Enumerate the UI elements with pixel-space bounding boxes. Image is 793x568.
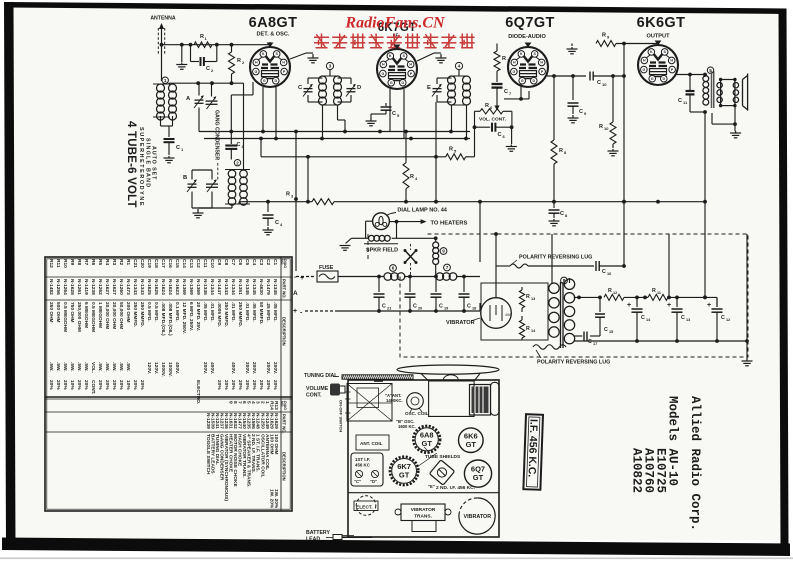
svg-text:N-1343: N-1343: [139, 279, 145, 295]
elect capacitor: [356, 496, 376, 516]
svg-text:6Q7GT: 6Q7GT: [505, 15, 555, 31]
wire 6K6 plate: [676, 70, 681, 72]
svg-text:N-1369: N-1369: [195, 279, 201, 295]
svg-text:N-1479: N-1479: [265, 279, 271, 295]
gang condenser section 2: [206, 180, 218, 192]
trimmer E: [432, 85, 442, 97]
svg-text:ANTENNA: ANTENNA: [150, 16, 176, 22]
ground right of 6K7: [417, 53, 434, 61]
capacitor C21: [378, 277, 380, 293]
svg-text:R: R: [602, 33, 606, 39]
svg-text:ON-OFF SWITCH: ON-OFF SWITCH: [339, 400, 344, 432]
IF transformer 1 (node 3): [326, 62, 333, 69]
svg-text:R4: R4: [104, 259, 110, 265]
svg-text:POLARITY REVERSING LUG: POLARITY REVERSING LUG: [519, 255, 592, 261]
ground under vol cont: [511, 127, 513, 144]
svg-text:500 OHM: 500 OHM: [55, 302, 61, 323]
svg-text:"D": "D": [370, 479, 377, 484]
svg-text:10: 10: [602, 82, 607, 87]
ground under C9: [568, 115, 579, 123]
svg-text:C2: C2: [265, 259, 271, 265]
svg-text:SINGLE BAND: SINGLE BAND: [145, 138, 151, 188]
resistor R8: [553, 76, 555, 140]
wire vertical IF1 bottom: [322, 105, 324, 139]
wire vertical IF2 bottom: [451, 105, 453, 132]
svg-text:H: H: [255, 61, 258, 65]
svg-text:.05 MFD.: .05 MFD.: [202, 302, 208, 322]
svg-text:20%: 20%: [139, 380, 145, 390]
svg-text:R7: R7: [83, 259, 89, 265]
wire 6Q7 bottom pin drops: [520, 84, 522, 99]
capacitor C8: [553, 202, 555, 208]
resistor R9: [596, 41, 616, 47]
svg-text:0.1 MFD.: 0.1 MFD.: [174, 302, 180, 322]
svg-text:200V.: 200V.: [202, 362, 208, 374]
svg-text:7: 7: [446, 265, 449, 270]
svg-text:.01 MFD.: .01 MFD.: [209, 302, 215, 322]
wire antenna row: [160, 43, 164, 47]
svg-text:120V.: 120V.: [153, 362, 159, 374]
svg-text:.5W.: .5W.: [104, 362, 110, 372]
svg-text:400V.: 400V.: [209, 362, 215, 374]
border frame right: [779, 9, 789, 546]
capacitor C17 series: [599, 324, 601, 336]
svg-text:20%: 20%: [48, 380, 54, 390]
tube 6Q7GT chassis: [464, 460, 491, 487]
svg-text:DET. & OSC.: DET. & OSC.: [257, 32, 290, 38]
vibrator unit box: [481, 283, 548, 340]
antenna coil (node 1): [162, 77, 168, 83]
svg-text:N-1351: N-1351: [237, 279, 243, 295]
svg-text:H: H: [540, 61, 543, 65]
svg-text:C13: C13: [188, 259, 194, 268]
svg-text:R: R: [286, 192, 290, 198]
svg-text:C15: C15: [174, 259, 180, 268]
svg-text:1ST I.F.: 1ST I.F.: [355, 457, 370, 462]
svg-text:20%: 20%: [230, 380, 236, 390]
resistor R13: [521, 287, 523, 290]
svg-text:200V.: 200V.: [251, 362, 257, 374]
oscillator coil (node 2): [234, 160, 240, 166]
wire vertical 6A8 pins: [262, 87, 264, 132]
wire secondary to ground: [734, 106, 736, 131]
IF transformer 2 (node 4): [455, 62, 462, 69]
svg-text:TO HEATERS: TO HEATERS: [431, 220, 468, 226]
svg-text:GT: GT: [421, 439, 432, 448]
ground right power: [742, 358, 753, 366]
svg-text:0.5 MFD.: 0.5 MFD.: [146, 302, 152, 322]
svg-text:250 MMFD.: 250 MMFD.: [132, 302, 138, 327]
svg-text:R: R: [599, 124, 603, 130]
svg-text:20%: 20%: [244, 380, 250, 390]
svg-text:G: G: [381, 72, 384, 76]
svg-text:C: C: [602, 269, 606, 275]
svg-text:120V.: 120V.: [146, 362, 152, 374]
trimmer D: [346, 85, 356, 97]
parts list table: [45, 257, 292, 511]
svg-text:N-1343: N-1343: [132, 279, 138, 295]
svg-text:1000V.: 1000V.: [167, 362, 173, 377]
svg-text:20%: 20%: [83, 380, 89, 390]
svg-text:R9: R9: [69, 259, 75, 265]
svg-text:1: 1: [164, 78, 167, 83]
svg-text:750 OHM: 750 OHM: [69, 302, 75, 323]
capacitor C4: [267, 202, 269, 212]
wire vertical x480: [479, 202, 481, 262]
svg-text:H: H: [643, 59, 646, 63]
svg-text:FUSE: FUSE: [319, 265, 334, 271]
svg-text:VIBRATOR: VIBRATOR: [463, 514, 491, 520]
svg-text:R: R: [652, 288, 656, 294]
choke 6: [390, 265, 397, 272]
svg-text:6 MEGOHM: 6 MEGOHM: [83, 302, 89, 328]
choke 7: [444, 264, 451, 271]
svg-text:1400KC.: 1400KC.: [386, 398, 403, 403]
svg-text:+: +: [707, 302, 711, 309]
lamp loop to field coil: [366, 220, 373, 222]
svg-text:I.F. 456 K.C.: I.F. 456 K.C.: [526, 419, 540, 478]
svg-text:DIODE-AUDIO: DIODE-AUDIO: [508, 34, 546, 40]
svg-text:N-1447: N-1447: [216, 279, 222, 295]
svg-text:C1: C1: [272, 259, 278, 265]
svg-text:DESCRIPTION: DESCRIPTION: [282, 317, 287, 346]
wire x545 6Q7 down: [544, 44, 546, 60]
svg-text:C19: C19: [146, 259, 152, 268]
transformer connections: [548, 289, 554, 291]
svg-text:1600 KC.: 1600 KC.: [398, 424, 416, 429]
ground under C1: [164, 156, 175, 163]
riser C16 connect: [622, 264, 626, 268]
svg-text:N-1624: N-1624: [167, 279, 173, 295]
svg-text:18: 18: [472, 307, 476, 311]
svg-text:N-1624: N-1624: [160, 279, 166, 295]
svg-text:N-4630: N-4630: [258, 279, 264, 295]
wire transformer secondary taps: [569, 278, 571, 283]
ground right of 6A8: [290, 53, 306, 59]
svg-text:456 KC: 456 KC: [355, 463, 371, 468]
svg-text:C9: C9: [216, 259, 222, 265]
svg-text:E: E: [427, 85, 431, 91]
svg-text:.5W.: .5W.: [55, 362, 61, 372]
border frame left: [4, 2, 16, 549]
wire to 6A8 grid cap: [266, 44, 270, 46]
svg-text:N-1625: N-1625: [146, 279, 152, 295]
svg-text:200 OHM: 200 OHM: [125, 302, 131, 323]
svg-text:C: C: [498, 132, 502, 138]
svg-text:20%: 20%: [216, 380, 222, 390]
svg-text:200V.: 200V.: [265, 362, 271, 374]
resistor R5: [446, 154, 466, 160]
svg-text:1W. 20%: 1W. 20%: [268, 489, 274, 509]
svg-text:1 MEGOHM: 1 MEGOHM: [97, 302, 103, 328]
speaker bracket: [743, 74, 748, 111]
resistor R1: [194, 42, 212, 48]
svg-text:RadioFans.CN: RadioFans.CN: [344, 15, 446, 32]
gang condenser box: [347, 384, 392, 422]
svg-text:C: C: [467, 304, 471, 310]
svg-text:.01 MFD.: .01 MFD.: [230, 302, 236, 322]
svg-text:TRANS.: TRANS.: [414, 514, 432, 520]
svg-text:VIBRATOR: VIBRATOR: [411, 507, 436, 513]
svg-text:H: H: [409, 63, 412, 67]
svg-text:OUTPUT: OUTPUT: [647, 34, 671, 40]
capacitor C2: [190, 45, 192, 62]
svg-text:SUPERHETERODYNE: SUPERHETERODYNE: [138, 127, 144, 207]
svg-text:C17: C17: [160, 259, 166, 268]
svg-text:20%: 20%: [272, 380, 278, 390]
svg-text:K: K: [262, 52, 265, 56]
svg-text:C: C: [560, 211, 564, 217]
svg-text:D: D: [274, 79, 277, 83]
svg-text:C: C: [382, 304, 386, 310]
wire vertical x436 IF2 down: [435, 102, 437, 202]
risers into dashed box: [704, 234, 706, 297]
svg-text:GANG CONDENSER: GANG CONDENSER: [214, 110, 220, 160]
ground under C5: [366, 118, 377, 126]
svg-text:R: R: [526, 294, 530, 300]
svg-text:C16: C16: [167, 259, 173, 268]
svg-text:ELECTRO.: ELECTRO.: [195, 380, 201, 404]
svg-text:R8: R8: [76, 259, 82, 265]
svg-text:R: R: [485, 103, 489, 109]
svg-text:R5: R5: [97, 259, 103, 265]
svg-text:13: 13: [531, 297, 535, 301]
tube 6K7GT: [377, 49, 417, 89]
svg-text:PART NO.: PART NO.: [282, 279, 287, 299]
svg-text:+: +: [293, 308, 297, 315]
svg-text:K: K: [650, 50, 653, 54]
svg-text:N-1238: N-1238: [90, 279, 96, 295]
tube 6Q7GT: [508, 47, 548, 87]
svg-text:N-1343: N-1343: [223, 279, 229, 295]
svg-text:C20: C20: [139, 259, 145, 268]
wire 6Q7 plate to C10: [547, 75, 586, 77]
X mark: [405, 251, 416, 263]
svg-text:G: G: [254, 70, 257, 74]
svg-text:400V.: 400V.: [230, 362, 236, 374]
capacitor C3: [225, 146, 237, 149]
tube 6K6GT: [638, 45, 678, 85]
svg-text:B: B: [183, 175, 187, 181]
svg-text:N-1345: N-1345: [272, 279, 278, 295]
svg-text:C7: C7: [230, 259, 236, 265]
svg-text:250 MMFD.: 250 MMFD.: [139, 302, 145, 327]
border frame top: [7, 2, 786, 14]
electrolytic C14: [636, 297, 638, 307]
svg-text:C: C: [504, 89, 508, 95]
svg-text:1000V.: 1000V.: [160, 362, 166, 377]
svg-text:2: 2: [236, 160, 239, 165]
svg-text:G: G: [521, 79, 524, 83]
svg-text:TOGGLE SWITCH: TOGGLE SWITCH: [205, 434, 211, 475]
ground below bus near R9: [571, 44, 573, 47]
border frame bottom: [2, 538, 790, 557]
svg-text:BATTERY: BATTERY: [306, 530, 330, 536]
svg-text:CONT.: CONT.: [90, 380, 96, 394]
svg-text:N-1239: N-1239: [205, 413, 211, 429]
svg-text:C: C: [721, 315, 725, 321]
svg-text:C6: C6: [237, 259, 243, 265]
wiper arrow onto R6: [496, 88, 498, 106]
svg-text:C10: C10: [209, 259, 215, 268]
svg-text:20%: 20%: [258, 380, 264, 390]
capacitor C11: [677, 74, 706, 76]
polarity reversing lug bottom: [533, 345, 566, 350]
resistor R2: [231, 45, 233, 52]
svg-text:D: D: [532, 79, 535, 83]
svg-text:D: D: [662, 77, 665, 81]
1st IF box: [351, 453, 383, 486]
svg-text:POLARITY REVERSING LUG: POLARITY REVERSING LUG: [537, 360, 610, 366]
gang condenser section 1: [206, 97, 218, 109]
vibrator chassis circle: [459, 498, 495, 534]
resistor R10: [612, 76, 614, 122]
electrolytic C13: [676, 297, 678, 307]
svg-text:.05 MFD.: .05 MFD.: [272, 302, 278, 322]
wire riser x624: [623, 44, 625, 267]
svg-text:G: G: [263, 79, 266, 83]
svg-text:TUNING DIAL: TUNING DIAL: [304, 373, 338, 379]
svg-text:.0005 MFD.: .0005 MFD.: [216, 302, 222, 327]
svg-text:.5W.: .5W.: [48, 362, 54, 372]
svg-text:AUTO SET: AUTO SET: [151, 146, 157, 180]
vibrator transformer (node 8): [561, 277, 568, 284]
svg-text:R1: R1: [125, 259, 131, 265]
wire vol cont left to R5: [474, 127, 476, 157]
ground under osc coil: [191, 192, 193, 209]
wire lower bus to vibrator: [371, 310, 480, 312]
svg-text:9: 9: [228, 401, 234, 404]
capacitor C1: [160, 116, 162, 126]
svg-text:GT: GT: [473, 473, 484, 482]
tube 6K6GT chassis: [459, 428, 484, 453]
svg-text:+: +: [627, 302, 631, 309]
svg-text:20,000 OHM: 20,000 OHM: [111, 302, 117, 329]
vibrator trans box: [401, 504, 445, 521]
svg-text:VOLUME: VOLUME: [306, 386, 329, 392]
wire bus y156: [261, 156, 446, 158]
wire bus y83.2: [168, 82, 243, 84]
svg-text:R: R: [559, 148, 563, 154]
svg-text:20,000 OHM: 20,000 OHM: [104, 302, 110, 329]
wire bus y138: [204, 138, 470, 140]
svg-text:20%: 20%: [76, 380, 82, 390]
svg-text:3: 3: [329, 64, 332, 69]
resistor R14: [521, 316, 523, 320]
wire vertical 6K7 pins: [389, 89, 391, 132]
svg-text:10%: 10%: [69, 380, 75, 390]
svg-text:12 MFD. 250V.: 12 MFD. 250V.: [181, 302, 187, 334]
chassis outline: [348, 380, 499, 537]
wire transformer bottom down: [703, 110, 707, 114]
wire trimmer B top: [191, 170, 193, 180]
svg-text:N-1419: N-1419: [83, 279, 89, 295]
svg-text:19: 19: [444, 307, 448, 311]
wire bus y131: [199, 131, 470, 133]
svg-text:.008 MFD.(OIL): .008 MFD.(OIL): [160, 302, 166, 336]
right solid riser to ground: [746, 234, 748, 358]
svg-text:N-1256: N-1256: [55, 279, 61, 295]
svg-text:C8: C8: [223, 259, 229, 265]
svg-text:.5W.: .5W.: [111, 362, 117, 372]
svg-text:C: C: [641, 315, 645, 321]
svg-text:R: R: [237, 58, 241, 64]
svg-text:C: C: [681, 315, 685, 321]
speaker top view: [397, 365, 499, 374]
svg-text:R: R: [526, 326, 530, 332]
svg-text:N-1260: N-1260: [118, 279, 124, 295]
svg-text:R: R: [502, 56, 506, 62]
svg-text:N-1628: N-1628: [69, 279, 75, 295]
svg-text:N-1264: N-1264: [62, 279, 68, 295]
choke 9 vertical (heater choke): [435, 238, 437, 242]
svg-text:N-1345: N-1345: [251, 279, 257, 295]
svg-text:+: +: [667, 302, 671, 309]
resistor R7: [496, 44, 498, 52]
svg-text:20: 20: [418, 307, 422, 311]
svg-text:200V.: 200V.: [244, 362, 250, 374]
svg-text:N-1262: N-1262: [97, 279, 103, 295]
wire 6A8 osc grid to C3: [252, 82, 254, 95]
svg-text:.5W.: .5W.: [83, 362, 89, 372]
svg-text:9: 9: [442, 249, 445, 254]
svg-text:N-1261: N-1261: [76, 279, 82, 295]
capacitor C7: [492, 84, 503, 88]
svg-text:20%: 20%: [265, 380, 271, 390]
svg-text:NO.: NO.: [280, 401, 284, 407]
svg-text:N-1344: N-1344: [230, 279, 236, 295]
svg-text:G: G: [651, 77, 654, 81]
svg-text:K: K: [389, 54, 392, 58]
svg-text:ELECT.: ELECT.: [356, 505, 373, 511]
svg-text:0.5 MFD.: 0.5 MFD.: [153, 302, 159, 322]
svg-text:C21: C21: [132, 259, 138, 268]
trimmer A: [194, 96, 204, 108]
svg-text:20%: 20%: [223, 380, 229, 390]
svg-text:G: G: [390, 81, 393, 85]
svg-text:Allied Radio Corp.: Allied Radio Corp.: [688, 396, 702, 531]
svg-text:20%: 20%: [237, 380, 243, 390]
svg-text:C11: C11: [202, 259, 208, 268]
svg-text:PART NO.: PART NO.: [282, 414, 287, 434]
svg-text:.01 MFD.: .01 MFD.: [244, 302, 250, 322]
svg-text:C18: C18: [153, 259, 159, 268]
trimmer C: [303, 85, 313, 97]
svg-text:H: H: [282, 61, 285, 65]
svg-text:20%: 20%: [251, 380, 257, 390]
svg-text:16: 16: [607, 272, 611, 276]
svg-text:C: C: [176, 145, 180, 151]
svg-text:N-1627: N-1627: [104, 279, 110, 295]
capacitor C15: [599, 297, 601, 311]
svg-text:250 MMFD.: 250 MMFD.: [237, 302, 243, 327]
svg-text:10: 10: [604, 126, 609, 131]
svg-text:.008 MFD.(OIL): .008 MFD.(OIL): [167, 302, 173, 336]
capacitor C10: [590, 72, 593, 81]
svg-text:.5W.: .5W.: [125, 362, 131, 372]
svg-text:H: H: [382, 63, 385, 67]
svg-text:G: G: [512, 70, 515, 74]
svg-text:.05 MFD.: .05 MFD.: [251, 302, 257, 322]
svg-text:20%: 20%: [132, 380, 138, 390]
svg-text:20%: 20%: [97, 380, 103, 390]
dashed enclosure box: [368, 234, 748, 357]
ground under C8: [549, 219, 560, 226]
gang condenser dashed link: [217, 163, 219, 180]
ant coil box: [356, 435, 389, 450]
capacitor C20: [409, 277, 411, 293]
svg-text:SPKR FIELD: SPKR FIELD: [366, 248, 398, 254]
